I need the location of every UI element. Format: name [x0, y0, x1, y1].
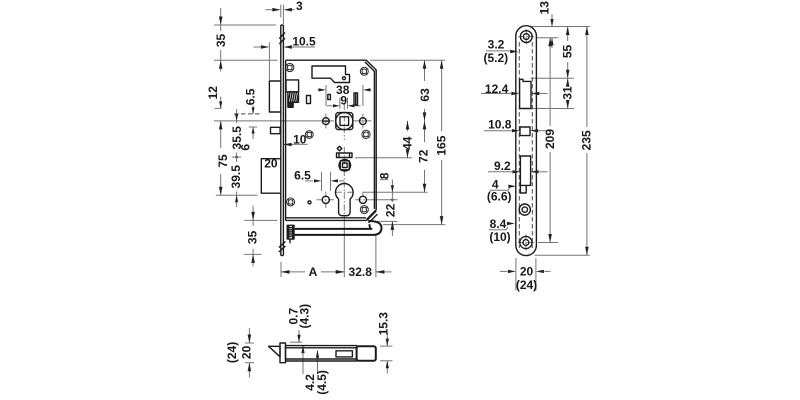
svg-text:3.2: 3.2	[488, 38, 505, 52]
svg-text:12.4: 12.4	[485, 82, 509, 96]
svg-text:209: 209	[543, 129, 557, 149]
svg-text:6.5: 6.5	[294, 169, 311, 183]
svg-text:10.8: 10.8	[488, 118, 512, 132]
svg-text:(5.2): (5.2)	[483, 51, 508, 65]
svg-text:9: 9	[340, 94, 347, 108]
svg-text:32.8: 32.8	[349, 265, 373, 279]
svg-text:9.2: 9.2	[494, 159, 511, 173]
svg-text:(10): (10)	[489, 230, 510, 244]
svg-text:39.5: 39.5	[229, 165, 243, 189]
svg-text:(6.6): (6.6)	[487, 190, 512, 204]
svg-text:(4.5): (4.5)	[315, 370, 329, 395]
svg-text:35: 35	[214, 34, 228, 48]
svg-text:3: 3	[296, 0, 303, 13]
svg-text:8.4: 8.4	[490, 217, 507, 231]
svg-text:15.3: 15.3	[377, 312, 391, 336]
svg-text:63: 63	[418, 88, 432, 102]
svg-text:6: 6	[239, 144, 253, 151]
svg-text:6.5: 6.5	[243, 88, 257, 105]
svg-text:13: 13	[538, 1, 552, 15]
svg-text:20: 20	[264, 157, 278, 171]
svg-text:55: 55	[561, 45, 575, 59]
svg-text:12: 12	[206, 86, 220, 100]
svg-text:75: 75	[216, 154, 230, 168]
svg-text:235: 235	[580, 130, 594, 150]
svg-text:20: 20	[520, 265, 534, 279]
svg-text:10.5: 10.5	[292, 35, 316, 49]
svg-text:(24): (24)	[516, 278, 537, 292]
svg-text:8: 8	[377, 172, 391, 179]
svg-text:22: 22	[384, 203, 398, 217]
svg-text:35: 35	[246, 230, 260, 244]
svg-text:165: 165	[435, 135, 449, 155]
svg-text:20: 20	[240, 345, 254, 359]
svg-text:A: A	[309, 265, 318, 279]
svg-text:10: 10	[293, 133, 307, 147]
svg-text:(4.3): (4.3)	[298, 304, 312, 329]
svg-text:72: 72	[417, 149, 431, 163]
svg-text:31: 31	[561, 86, 575, 100]
svg-text:(24): (24)	[225, 342, 239, 363]
svg-text:44: 44	[401, 136, 415, 150]
